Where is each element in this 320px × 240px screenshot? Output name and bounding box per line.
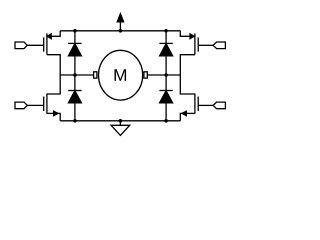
node left column dots (73, 29, 77, 123)
node right column dots (164, 29, 168, 123)
pin IN3 (bottom-left input) (15, 102, 27, 109)
wire gate Q3 (27, 104, 43, 106)
motor label M (114, 69, 126, 81)
wire top rail (V+ net) (60, 30, 180, 32)
pin IN2 (top-right input) (213, 42, 225, 49)
transistor Q3 (bottom-left MOSFET) (44, 75, 61, 121)
wire gate Q4 (198, 104, 213, 106)
wire gate Q2 (198, 44, 213, 46)
diode D2 (upper-right) (159, 43, 172, 56)
pin IN4 (bottom-right input) (213, 102, 225, 109)
pin IN1 (top-left input) (15, 42, 27, 49)
wire bottom rail (GND net) (60, 120, 180, 122)
transistor Q4 (bottom-right MOSFET) (180, 75, 198, 121)
diode D4 (lower-right) (159, 91, 172, 103)
motor M1 (94, 50, 148, 100)
wire right motor lead (148, 74, 181, 76)
wire right diode column (165, 31, 167, 121)
diode D1 (upper-left) (68, 43, 81, 56)
ground (111, 121, 130, 136)
wire gate Q1 (27, 44, 43, 46)
node V+ junction dot (119, 29, 123, 33)
node GND junction dot (119, 119, 123, 123)
power V+ symbol (117, 14, 123, 31)
transistor Q2 (top-right MOSFET) (180, 31, 198, 75)
wire left motor lead (60, 74, 93, 76)
transistor Q1 (top-left MOSFET) (44, 31, 61, 75)
wire left diode column (74, 31, 76, 121)
diode D3 (lower-left) (68, 91, 81, 103)
